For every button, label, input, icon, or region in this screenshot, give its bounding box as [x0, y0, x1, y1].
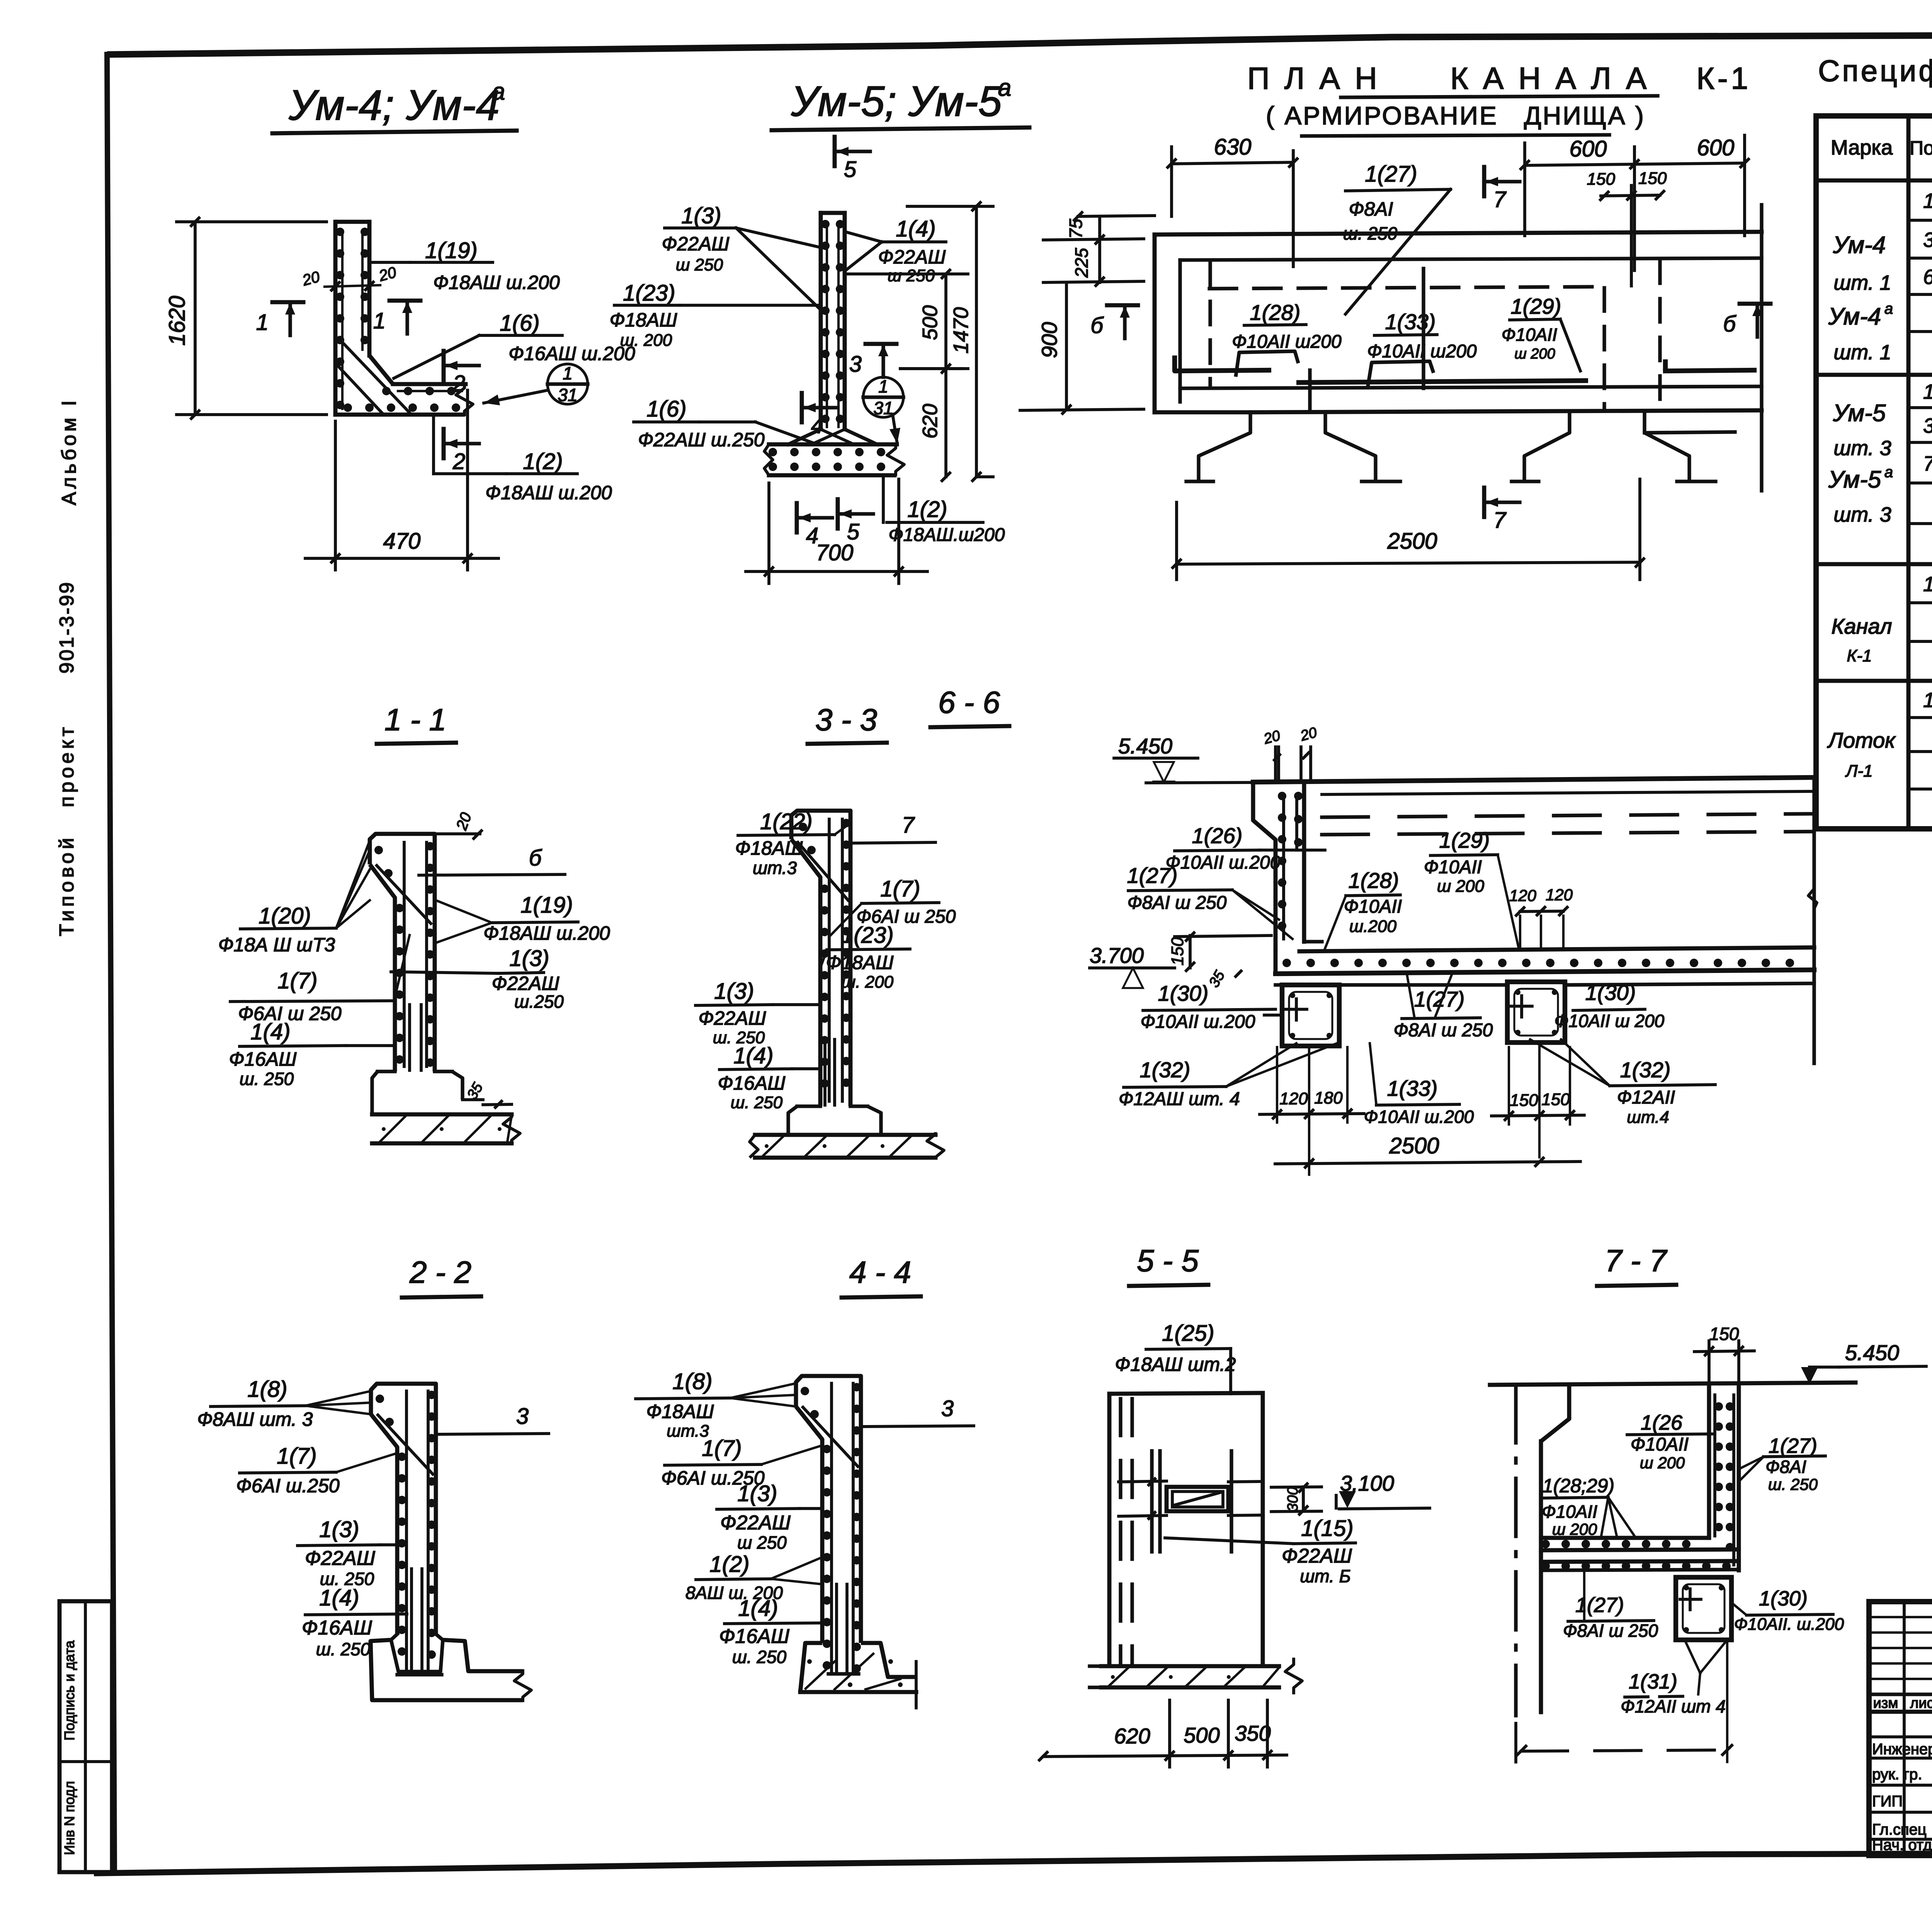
svg-text:1(4): 1(4): [738, 1596, 778, 1621]
svg-text:1(7): 1(7): [277, 1444, 316, 1469]
svg-text:1: 1: [563, 363, 573, 383]
section 6-6 label 1(30) left: [1141, 981, 1276, 1032]
svg-text:Ф8АI ш 250: Ф8АI ш 250: [1394, 1020, 1493, 1041]
Um-5 section marker 5 top: [835, 137, 870, 182]
sheet frame top border: [107, 33, 1932, 54]
section 7-7 label 1(26: [1627, 1411, 1713, 1472]
svg-text:Ф8АI: Ф8АI: [1765, 1457, 1806, 1477]
section 6-6 label 1(27) lower: [1394, 972, 1493, 1041]
section 4-4 title: [842, 1255, 921, 1298]
section 5-5 dim 300: [1271, 1484, 1321, 1514]
section 6-6 label 1(33): [1364, 1043, 1474, 1127]
svg-text:500: 500: [918, 305, 942, 340]
svg-text:1(30): 1(30): [1585, 980, 1636, 1005]
svg-text:1(30): 1(30): [1158, 981, 1209, 1005]
section 1-1 leader b: [419, 845, 565, 875]
Um-4 cover dim 20 20: [300, 264, 398, 290]
svg-text:шт. 3: шт. 3: [1833, 503, 1891, 526]
svg-text:1(26): 1(26): [1192, 823, 1243, 848]
section 6-6 dims 120 180: [1260, 1047, 1364, 1122]
section 3-3 label 1(7): [831, 876, 956, 935]
svg-text:Ф22АШ: Ф22АШ: [1282, 1545, 1352, 1567]
svg-text:1(8): 1(8): [672, 1369, 712, 1394]
Plan K-1 label 1(29): [1502, 294, 1580, 371]
svg-text:1(20): 1(20): [259, 903, 311, 929]
svg-text:Ф16АШ ш.200: Ф16АШ ш.200: [509, 343, 635, 364]
svg-text:1(7): 1(7): [702, 1436, 742, 1461]
svg-text:ш. 200: ш. 200: [620, 331, 672, 350]
svg-text:2: 2: [452, 449, 465, 474]
section 7-7 label 1(27) lower: [1563, 1571, 1658, 1641]
svg-text:Ум-4: Ум-4: [1833, 232, 1886, 259]
svg-text:Ф6АI ш.250: Ф6АI ш.250: [236, 1475, 340, 1497]
section 6-6 dim 150: [1168, 933, 1271, 990]
svg-text:Лоток: Лоток: [1827, 728, 1896, 752]
spec table header texts: [1831, 121, 1932, 162]
svg-text:ш 250: ш 250: [676, 255, 723, 274]
section 5-5 level 3.100: [1336, 1471, 1430, 1509]
Um-5 label 1(3) left: [662, 203, 820, 309]
svg-text:3 - 3: 3 - 3: [815, 702, 877, 737]
section 6-6 channel wall and slab: [1146, 777, 1814, 974]
svg-text:700: 700: [816, 540, 854, 565]
svg-text:1(28): 1(28): [1349, 868, 1399, 893]
svg-text:Инженер: Инженер: [1872, 1741, 1932, 1758]
svg-text:4: 4: [811, 413, 823, 438]
Plan K-1 label 1(28): [1232, 300, 1342, 377]
svg-text:Нач. отд: Нач. отд: [1872, 1837, 1932, 1854]
svg-text:1(32): 1(32): [1140, 1058, 1190, 1082]
svg-text:Альбом I: Альбом I: [58, 397, 80, 505]
svg-text:Ф10АII: Ф10АII: [1424, 857, 1482, 878]
svg-text:1: 1: [1923, 573, 1932, 596]
svg-text:1(27): 1(27): [1769, 1434, 1817, 1458]
svg-text:ш 200: ш 200: [1640, 1454, 1685, 1472]
Plan K-1 section marker 7 top: [1484, 167, 1520, 212]
svg-text:75: 75: [1066, 219, 1086, 239]
svg-text:1(2): 1(2): [907, 497, 947, 522]
section 4-4 label 1(4): [719, 1596, 831, 1667]
svg-text:1(27): 1(27): [1127, 863, 1178, 888]
svg-text:ш 250: ш 250: [737, 1532, 787, 1553]
svg-text:225: 225: [1071, 248, 1092, 278]
svg-text:120: 120: [1546, 886, 1573, 904]
section 3-3 wall: [791, 811, 850, 1106]
svg-text:Ф8АШ шт. 3: Ф8АШ шт. 3: [197, 1408, 313, 1430]
Um-4 section marker 2 upper: [444, 351, 479, 396]
svg-text:5.450: 5.450: [1118, 734, 1172, 758]
section 1-1 label 1(4): [229, 1019, 395, 1089]
svg-text:ш. 250: ш. 250: [731, 1093, 783, 1112]
svg-text:31: 31: [873, 398, 893, 418]
section 7-7 label 1(27) right: [1740, 1434, 1825, 1493]
section 6-6 label 1(32) left: [1119, 1043, 1337, 1109]
svg-text:3: 3: [516, 1404, 529, 1429]
Plan K-1 outline: [1155, 205, 1762, 491]
svg-text:1(2): 1(2): [523, 449, 563, 474]
section 4-4 label 1(8): [636, 1369, 796, 1440]
left margin vertical text: Album I: [58, 397, 80, 505]
Um-4 section marker 1 right: [373, 301, 420, 334]
svg-text:Ф10АII ш.200: Ф10АII ш.200: [1141, 1012, 1255, 1032]
svg-text:3.700: 3.700: [1090, 943, 1144, 968]
svg-text:1(15): 1(15): [1301, 1516, 1353, 1541]
svg-text:6: 6: [1923, 265, 1932, 289]
svg-text:Канал: Канал: [1831, 614, 1892, 638]
section 6-6 title: [930, 685, 1009, 727]
svg-text:1(23): 1(23): [841, 923, 893, 948]
svg-text:Ф8АI ш 250: Ф8АI ш 250: [1563, 1621, 1658, 1641]
svg-text:1: 1: [878, 376, 888, 396]
svg-text:Ф18АШ: Ф18АШ: [826, 952, 894, 973]
svg-text:1(4): 1(4): [733, 1043, 773, 1068]
svg-text:1: 1: [1923, 689, 1932, 712]
left margin vertical text: 901-3-99: [56, 581, 78, 673]
svg-text:1(4): 1(4): [319, 1585, 359, 1611]
svg-text:120: 120: [1279, 1089, 1308, 1108]
svg-text:шт. 1: шт. 1: [1833, 341, 1891, 364]
drawing Um-5 title: [772, 75, 1029, 130]
svg-text:а: а: [492, 78, 505, 105]
svg-text:2 - 2: 2 - 2: [409, 1255, 471, 1289]
section 1-1 footing: [372, 1071, 520, 1145]
svg-text:3: 3: [1923, 228, 1932, 252]
section 4-4 label 1(7): [661, 1436, 823, 1489]
Plan K-1 label 1(33): [1367, 310, 1477, 386]
section 6-6 cover dims 20 20: [1262, 724, 1319, 782]
svg-text:2: 2: [452, 371, 465, 396]
Um-4 section marker 1 left: [256, 302, 303, 335]
svg-text:1(8): 1(8): [247, 1377, 287, 1402]
svg-text:ш.250: ш.250: [514, 992, 564, 1012]
svg-text:шт. Б: шт. Б: [1300, 1566, 1351, 1586]
svg-text:5.450: 5.450: [1845, 1340, 1899, 1365]
svg-text:1(27): 1(27): [1575, 1594, 1624, 1617]
title block revision grid: [1869, 1602, 1932, 1855]
svg-text:Ф16АШ: Ф16АШ: [719, 1625, 789, 1648]
svg-text:1(4): 1(4): [896, 216, 935, 241]
svg-text:1(4): 1(4): [250, 1019, 290, 1044]
section 5-5 title: [1129, 1243, 1208, 1286]
svg-text:1: 1: [1923, 189, 1932, 213]
Plan K-1 title: [1247, 61, 1751, 136]
section 7-7 label 1(30) lower: [1733, 1587, 1844, 1634]
svg-text:1(27): 1(27): [1365, 162, 1417, 187]
section 5-5 dims 620 500 350: [1039, 1700, 1287, 1767]
svg-text:Марка: Марка: [1831, 136, 1893, 159]
svg-text:5: 5: [844, 157, 857, 182]
Um-5 T-wall section: [764, 213, 904, 476]
svg-text:150: 150: [1638, 169, 1667, 188]
svg-text:150: 150: [1510, 1091, 1538, 1110]
svg-text:1(32): 1(32): [1620, 1058, 1671, 1082]
svg-text:Ф10АII ш.200: Ф10АII ш.200: [1364, 1107, 1474, 1127]
svg-text:Ф18АШ.ш200: Ф18АШ.ш200: [888, 525, 1005, 545]
title block revision header: [1873, 1694, 1932, 1711]
svg-text:Типовой проект: Типовой проект: [56, 724, 78, 936]
Plan K-1 dim 2500: [1173, 479, 1644, 580]
Um-5 label 1(2): [883, 477, 1005, 545]
svg-text:а: а: [998, 75, 1011, 101]
svg-text:150: 150: [1587, 170, 1616, 189]
Um-5 dim 500: [844, 270, 968, 372]
svg-text:ш 250: ш 250: [888, 266, 935, 285]
svg-text:Ф18АШ ш.200: Ф18АШ ш.200: [483, 922, 610, 944]
svg-text:1(19): 1(19): [425, 238, 477, 263]
section 5-5 label 1(25): [1115, 1321, 1236, 1394]
svg-text:31: 31: [558, 385, 577, 405]
svg-text:4 - 4: 4 - 4: [849, 1255, 911, 1289]
section 6-6 slab horizontal below: [1276, 777, 1817, 1063]
spec table grid: [1816, 116, 1932, 829]
Plan K-1 dashed reinforcement zone: [1209, 260, 1660, 410]
section 6-6 water level dashes: [1322, 814, 1814, 835]
svg-text:а: а: [1884, 464, 1893, 481]
section 1-1 label 1(7): [230, 935, 410, 1024]
svg-text:Ф10АII ш.200: Ф10АII ш.200: [1166, 852, 1281, 873]
svg-text:рук. гр.: рук. гр.: [1872, 1766, 1922, 1783]
svg-text:1(3): 1(3): [737, 1481, 777, 1506]
svg-text:2500: 2500: [1389, 1133, 1439, 1158]
section 5-5 label 1(15): [1165, 1516, 1355, 1586]
svg-text:1(29): 1(29): [1439, 828, 1490, 852]
section 3-3 label 1(4): [718, 1043, 820, 1112]
svg-text:Ф18АШ ш.200: Ф18АШ ш.200: [485, 482, 612, 503]
svg-text:1620: 1620: [165, 296, 190, 345]
section 7-7 label 1(31): [1621, 1640, 1727, 1716]
svg-text:1(3): 1(3): [319, 1517, 359, 1542]
svg-text:1(6): 1(6): [500, 311, 539, 336]
svg-text:ш. 200: ш. 200: [842, 973, 894, 992]
Plan K-1 section marker 7 bottom: [1484, 488, 1520, 533]
Plan K-1 dim 630: [1168, 134, 1297, 267]
section 6-6 level 3.700: [1090, 943, 1175, 988]
svg-text:1470: 1470: [949, 307, 973, 354]
Um-5 section marker 4 left: [802, 393, 837, 438]
svg-text:изм: изм: [1873, 1695, 1898, 1711]
svg-text:300: 300: [1285, 1487, 1301, 1511]
svg-text:Ф10АII: Ф10АII: [1344, 896, 1402, 917]
section 1-1 label 1(19): [436, 893, 610, 944]
Plan K-1 left dims 75 225 900: [1020, 213, 1155, 413]
svg-text:Ум-5; Ум-5: Ум-5; Ум-5: [791, 78, 1002, 125]
svg-text:Ф22АШ: Ф22АШ: [720, 1512, 791, 1534]
svg-text:7: 7: [1493, 508, 1507, 533]
spec table Marka column texts: [1827, 232, 1896, 781]
svg-text:Ф16АШ: Ф16АШ: [718, 1072, 786, 1094]
section 7-7 beam square: [1676, 1577, 1731, 1640]
svg-text:Ф22АШ: Ф22АШ: [492, 973, 560, 994]
svg-text:Ф18А Ш шТ3: Ф18А Ш шТ3: [218, 934, 335, 956]
svg-text:1(26: 1(26: [1641, 1411, 1683, 1434]
svg-text:350: 350: [1235, 1721, 1270, 1745]
svg-text:3: 3: [941, 1396, 954, 1421]
svg-text:ш. 250: ш. 250: [240, 1069, 294, 1089]
drawing Um-4 title: [272, 78, 517, 133]
section 6-6 label 1(29): [1424, 828, 1519, 947]
section 5-5 foundation hatch: [1090, 1658, 1302, 1694]
Um-5 dim 700: [746, 479, 927, 583]
svg-text:600: 600: [1570, 136, 1607, 162]
section 7-7 label 1(28;29): [1542, 1475, 1634, 1538]
svg-text:Ф22АШ: Ф22АШ: [305, 1547, 375, 1570]
svg-text:шт. 1: шт. 1: [1833, 271, 1891, 294]
Um-5 dim 620: [918, 369, 950, 481]
svg-text:1(22): 1(22): [760, 809, 812, 834]
Um-5 dim 1470: [907, 202, 993, 481]
section 7-7 dim 150: [1694, 1324, 1754, 1382]
svg-text:Ф22АШ: Ф22АШ: [699, 1007, 767, 1029]
svg-text:Ф10АII: Ф10АII: [1542, 1502, 1597, 1522]
svg-text:б: б: [1090, 313, 1104, 338]
svg-text:7: 7: [1493, 187, 1507, 212]
Um-4 L-shaped wall section: [335, 222, 473, 416]
svg-text:ш.200: ш.200: [1349, 917, 1397, 936]
svg-text:П Л А Н К А Н А Л А К-: П Л А Н К А Н А Л А К-1: [1247, 61, 1751, 95]
svg-text:901-3-99: 901-3-99: [56, 581, 78, 673]
section 3-3 label 1(3): [696, 979, 820, 1047]
svg-text:б: б: [529, 845, 543, 871]
section 7-7 wall and slabs: [1490, 1383, 1855, 1716]
svg-text:6 - 6: 6 - 6: [938, 685, 1000, 719]
svg-text:470: 470: [383, 529, 421, 554]
section 2-2 label 1(7): [236, 1444, 398, 1497]
section 7-7 bottom dashed dim: [1516, 1642, 1732, 1762]
section 4-4 wall: [796, 1376, 861, 1673]
svg-text:7 - 7: 7 - 7: [1605, 1243, 1668, 1278]
section 2-2 label 1(3): [298, 1517, 397, 1589]
Um-4 label 1(19): [370, 238, 560, 293]
svg-text:Ф22АШ: Ф22АШ: [662, 233, 730, 255]
svg-text:а: а: [1884, 300, 1893, 317]
svg-text:Л-1: Л-1: [1845, 762, 1872, 781]
svg-text:1(3): 1(3): [509, 946, 549, 971]
Um-4 detail circle 1/31: [484, 363, 588, 405]
svg-text:1(33): 1(33): [1387, 1076, 1438, 1100]
Plan K-1 label 1(27): [1343, 162, 1451, 314]
svg-text:1 - 1: 1 - 1: [384, 702, 446, 737]
svg-text:Ф8АI ш 250: Ф8АI ш 250: [1128, 893, 1227, 913]
svg-text:600: 600: [1697, 135, 1735, 160]
svg-text:Спецификация: Спецификация: [1818, 54, 1932, 88]
svg-text:Ф18АШ шт.2: Ф18АШ шт.2: [1115, 1354, 1236, 1375]
Um-5 label 1(23) left: [610, 281, 821, 350]
svg-text:1(3): 1(3): [714, 979, 754, 1004]
section 4-4 label 1(2): [685, 1552, 822, 1603]
section 6-6 dim 2500: [1275, 1122, 1580, 1175]
svg-text:ГИП: ГИП: [1872, 1793, 1903, 1810]
svg-text:630: 630: [1214, 134, 1252, 160]
section 6-6 label 1(30) right: [1554, 980, 1665, 1031]
sheet frame left border: [107, 54, 114, 1872]
section 4-4 leader 3: [862, 1396, 974, 1427]
svg-text:Ум-4: Ум-4: [1828, 303, 1881, 330]
svg-text:1: 1: [256, 310, 269, 335]
svg-text:лист: лист: [1910, 1695, 1932, 1711]
section 3-3 label 1(23): [821, 923, 910, 992]
section 6-6 label 1(26): [1166, 823, 1325, 873]
svg-text:К-1: К-1: [1847, 646, 1872, 665]
svg-text:1(3): 1(3): [681, 203, 721, 228]
spec table title: [1818, 48, 1932, 88]
section 2-2 label 1(8): [197, 1377, 371, 1430]
svg-text:Ф16АШ: Ф16АШ: [229, 1048, 297, 1070]
Um-5 section markers 4,5 bottom: [797, 503, 832, 548]
section 6-6 dims 120 120 top: [1509, 886, 1573, 947]
Um-5 label 1(6) left: [634, 396, 817, 451]
Um-5 detail circle 1/31: [863, 376, 903, 444]
section 1-1 label 1(3): [391, 946, 564, 1012]
title block outer frame: [1869, 1602, 1932, 1855]
section 7-7 level 5.450: [1801, 1340, 1926, 1384]
svg-text:3: 3: [1923, 414, 1932, 437]
svg-text:500: 500: [1184, 1723, 1219, 1747]
svg-text:1(30): 1(30): [1759, 1587, 1808, 1610]
svg-text:3: 3: [849, 352, 862, 377]
Um-4 section marker 2 lower: [444, 429, 479, 474]
svg-text:ш. 250: ш. 250: [1343, 223, 1398, 243]
svg-text:620: 620: [1114, 1724, 1150, 1748]
svg-text:1(25): 1(25): [1162, 1321, 1214, 1346]
svg-text:Ф16АШ: Ф16АШ: [302, 1617, 372, 1639]
svg-text:150: 150: [1709, 1324, 1739, 1344]
section 2-2 socket footing: [371, 1634, 531, 1702]
Plan K-1 section marker b left: [1090, 305, 1138, 338]
Um-4 dimension 1620: [165, 218, 327, 418]
svg-text:Инв N подл: Инв N подл: [61, 1781, 77, 1855]
Um-4 label 1(6): [394, 311, 635, 378]
svg-text:Ф22АШ ш.250: Ф22АШ ш.250: [638, 429, 765, 451]
svg-text:150: 150: [1541, 1090, 1570, 1109]
section 1-1 wall: [370, 810, 481, 1071]
svg-text:1(2): 1(2): [709, 1552, 749, 1577]
section 3-3 title: [808, 702, 887, 744]
section 6-6 label 1(28): [1325, 868, 1402, 949]
svg-text:1(19): 1(19): [520, 893, 573, 918]
Plan K-1 section marker b right: [1723, 304, 1770, 337]
section 5-5 wall outline: [1109, 1393, 1263, 1665]
svg-text:Ф18АШ: Ф18АШ: [610, 309, 678, 331]
svg-text:1(33): 1(33): [1385, 310, 1436, 334]
svg-text:Ум-5: Ум-5: [1828, 466, 1881, 493]
section 1-1 title: [377, 702, 456, 744]
Um-5 section marker 3: [849, 344, 962, 377]
svg-text:Ф12АII шт 4: Ф12АII шт 4: [1621, 1696, 1726, 1716]
section 3-3 leader 7: [852, 813, 935, 843]
svg-text:Ф18АШ: Ф18АШ: [646, 1401, 714, 1422]
section 2-2 label 1(4): [302, 1585, 407, 1659]
svg-text:1: 1: [1923, 380, 1932, 403]
svg-text:Ум-5: Ум-5: [1833, 400, 1886, 427]
svg-text:Поз.: Поз.: [1910, 137, 1932, 159]
section 1-1 label 1(20): [218, 840, 370, 956]
svg-text:1(7): 1(7): [880, 876, 920, 901]
svg-text:1(23): 1(23): [623, 281, 675, 306]
section 3-3 label 1(22): [735, 809, 850, 878]
svg-text:Ум-4; Ум-4: Ум-4; Ум-4: [288, 82, 500, 129]
svg-text:1(31): 1(31): [1629, 1670, 1677, 1693]
svg-text:900: 900: [1037, 322, 1061, 358]
svg-text:1(29): 1(29): [1511, 294, 1561, 318]
svg-text:620: 620: [918, 404, 942, 439]
svg-text:Ф12АШ шт. 4: Ф12АШ шт. 4: [1119, 1089, 1240, 1109]
section 4-4 socket footing: [800, 1643, 916, 1708]
svg-text:Ф12АII: Ф12АII: [1617, 1087, 1675, 1108]
section 6-6 label 1(27) upper: [1127, 863, 1293, 939]
svg-text:Гл.спец: Гл.спец: [1872, 1821, 1927, 1838]
section 4-4 label 1(3): [717, 1481, 822, 1553]
svg-text:Ф8АI: Ф8АI: [1349, 198, 1393, 220]
